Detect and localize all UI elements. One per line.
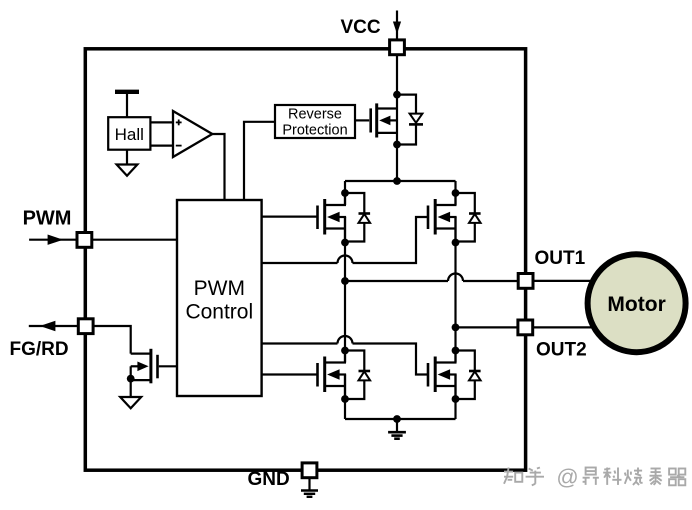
transistor Q2 (high-side left) (318, 193, 347, 242)
node OUT1 junction (341, 277, 349, 285)
label FG/RD (10, 339, 69, 360)
chip boundary (driver IC outline) (85, 49, 525, 470)
body diode D2 (345, 193, 370, 242)
transistor Q4 (low-side left) (318, 351, 347, 400)
wire VCC stem into chip (396, 47, 398, 95)
pin OUT1 (518, 274, 533, 289)
wire gate Q5 (hops left column) (262, 336, 428, 374)
label OUT2 (536, 339, 587, 360)
wire OUT1 (hops right column) (345, 274, 518, 282)
svg-text:PWM: PWM (23, 208, 72, 230)
label PWM (23, 208, 72, 230)
wire Hall to comparator - (150, 145, 173, 147)
pin OUT2 (518, 320, 533, 335)
svg-text:Protection: Protection (282, 122, 347, 138)
ground (GND pin) (301, 477, 318, 496)
wire OUT2 to motor (534, 326, 594, 328)
wire gate Q2 (262, 216, 318, 218)
label OUT1 (535, 248, 586, 269)
block Reverse Protection (275, 105, 355, 138)
wire Reverse Protection to PWM Control (244, 122, 275, 200)
pin VCC (390, 40, 405, 55)
ground (FG/RD FET) (120, 397, 141, 408)
node Q6 source-body (127, 375, 135, 383)
watermark zhihu @ankeshaoluqi (504, 464, 685, 489)
label GND (248, 469, 290, 490)
transistor Q6 (FG/RD open-drain FET) (131, 349, 177, 397)
svg-text:Motor: Motor (607, 293, 665, 316)
node Q1 source (393, 141, 401, 149)
wire OUT1 to motor (534, 280, 591, 282)
node VCC-Q1 drain (393, 91, 401, 99)
svg-text:FG/RD: FG/RD (10, 339, 69, 360)
ground (H-bridge) (388, 419, 406, 439)
svg-text:Reverse: Reverse (288, 106, 342, 122)
body diode D5 (456, 351, 481, 400)
svg-text:VCC: VCC (341, 17, 381, 38)
ground (Hall) (117, 150, 138, 176)
svg-text:OUT2: OUT2 (536, 339, 587, 360)
transistor Q3 (high-side right) (428, 193, 457, 242)
transistor Q1 (reverse protection FET) (355, 95, 397, 145)
body diode D1 (points down) (397, 95, 423, 145)
node Q5 source (452, 395, 460, 403)
svg-text:@: @ (556, 464, 578, 489)
svg-text:OUT1: OUT1 (535, 248, 586, 269)
motor M1 (588, 254, 686, 352)
block PWM Control (177, 200, 262, 396)
svg-text:Hall: Hall (115, 125, 144, 144)
node OUT2 junction (452, 324, 460, 332)
wire Q1 to bridge (396, 145, 398, 182)
VCC input arrow (393, 11, 401, 41)
wire PWM pad to PWM Control (93, 239, 178, 241)
wire OUT2 (456, 326, 519, 328)
wire Hall to comparator + (150, 121, 173, 123)
wire bridge left column (344, 181, 346, 419)
body diode D4 (345, 351, 370, 400)
node Q4 source (341, 395, 349, 403)
node Q2 source (341, 239, 349, 247)
wire bridge bottom rail (345, 418, 456, 420)
node Q3 drain tap (452, 189, 460, 197)
Hall sensor block (108, 117, 150, 150)
body diode D3 (456, 193, 481, 242)
transistor Q5 (low-side right) (428, 351, 457, 400)
wire FG/RD pad to Q6 drain (94, 326, 131, 354)
Hall supply bar (115, 92, 139, 117)
wire bridge top rail (345, 180, 456, 182)
svg-text:PWM: PWM (194, 277, 245, 300)
node Q2 drain tap (341, 189, 349, 197)
node Q4 drain tap (341, 347, 349, 355)
op-amp U1 (hall comparator) (173, 111, 212, 157)
label VCC (341, 17, 381, 38)
pin PWM (77, 233, 92, 248)
pin GND (302, 463, 317, 478)
node bridge ground (393, 415, 401, 423)
wire bridge right column (454, 181, 456, 419)
wire comparator output to PWM Control (212, 134, 224, 200)
FG/RD output arrow (29, 321, 78, 331)
wire gate Q3 (hops left column) (262, 217, 428, 263)
pin FG/RD (78, 319, 93, 334)
node Q5 drain tap (452, 347, 460, 355)
svg-text:GND: GND (248, 469, 290, 490)
svg-text:Control: Control (185, 301, 253, 324)
node bridge top center (393, 177, 401, 185)
node Q3 source (452, 239, 460, 247)
PWM input arrow (29, 235, 76, 245)
wire gate Q4 (262, 373, 318, 375)
